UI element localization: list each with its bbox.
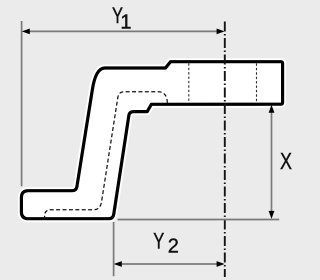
- arrow Y1 right: [217, 29, 225, 35]
- hidden contour (dashed) of bend: [45, 92, 168, 219]
- dimension line Y1: [24, 30, 223, 32]
- arrow X bottom: [269, 211, 275, 219]
- part body outline white casing: [21, 62, 282, 219]
- svg-text:Y: Y: [153, 229, 164, 254]
- arrow X top: [269, 105, 275, 113]
- extension line bottom (X): [118, 219, 280, 221]
- hidden vertical line 2 in head: [256, 64, 258, 103]
- arrow Y2 right: [217, 261, 225, 267]
- label Y1: [112, 4, 132, 33]
- svg-text:2: 2: [168, 236, 179, 258]
- part body outline: [21, 62, 282, 219]
- extension line (Y2): [113, 222, 115, 276]
- hidden vertical line 1 in head: [188, 63, 190, 102]
- dimension line X: [271, 107, 273, 217]
- centerline (dash-dot): [224, 22, 226, 278]
- svg-text:1: 1: [120, 11, 131, 33]
- label Y2: [153, 229, 179, 258]
- dimension line Y2: [116, 263, 223, 265]
- extension line left (Y1): [21, 21, 23, 186]
- arrow Y2 left: [114, 261, 122, 267]
- svg-text:X: X: [280, 149, 292, 175]
- arrow Y1 left: [22, 29, 30, 35]
